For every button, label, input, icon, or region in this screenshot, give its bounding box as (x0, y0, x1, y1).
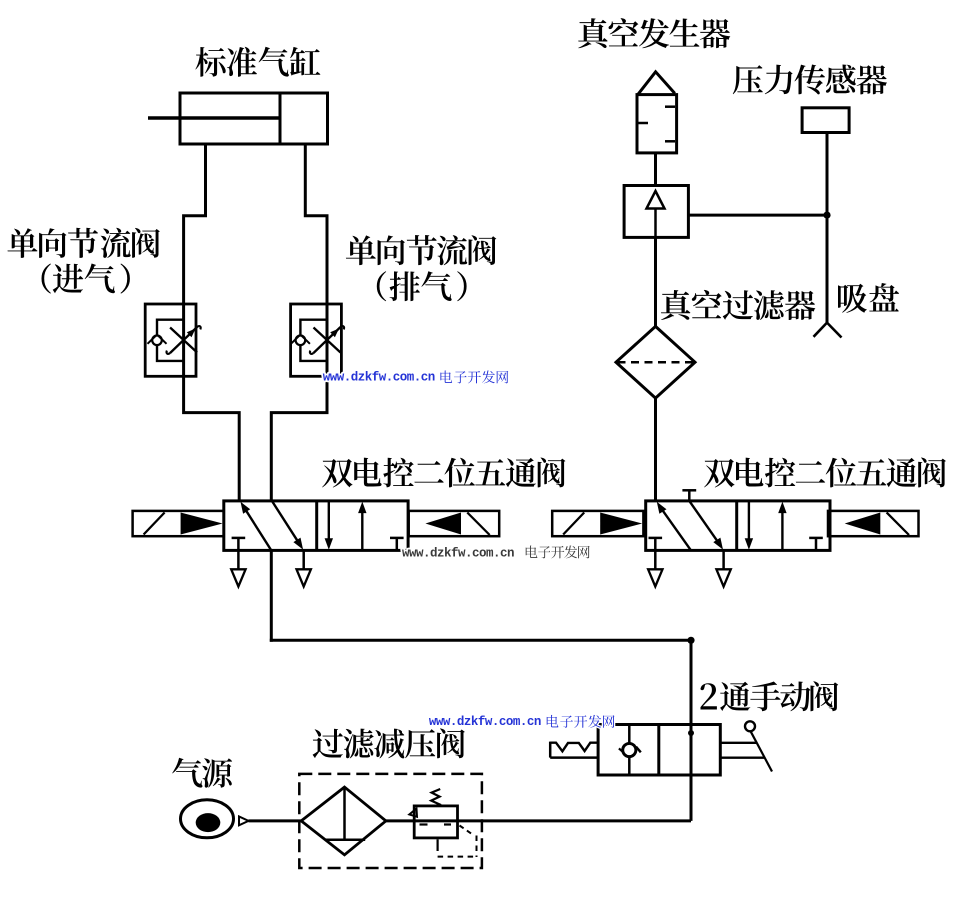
svg-text:www.dzkfw.com.cn: www.dzkfw.com.cn (323, 371, 435, 385)
svg-text:www.dzkfw.com.cn: www.dzkfw.com.cn (429, 715, 541, 729)
svg-text:www.dzkfw.com.cn: www.dzkfw.com.cn (402, 546, 514, 560)
